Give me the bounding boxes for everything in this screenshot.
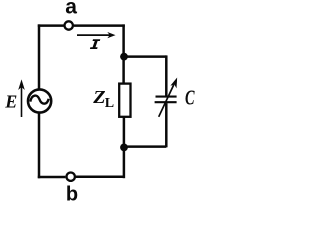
- svg-text:E: E: [4, 91, 17, 111]
- wire capacitor branch right vertical lower: [165, 103, 168, 147]
- wire bottom (left corner to node b): [38, 176, 66, 179]
- capacitor C: bottom plate: [155, 101, 177, 103]
- junction top (node between ZL and C branch): [120, 53, 128, 61]
- wire left vertical (source to bottom corner): [38, 113, 41, 179]
- label C: [185, 86, 195, 109]
- label Z: [92, 88, 106, 108]
- svg-text:b: b: [66, 184, 78, 202]
- svg-text:L: L: [105, 96, 114, 111]
- wire right vertical (top corner to ZL box): [122, 24, 125, 83]
- wire capacitor branch bottom horizontal: [124, 145, 166, 148]
- wire left vertical (top corner to source): [38, 24, 41, 89]
- wire top (node a to right corner): [74, 24, 125, 27]
- svg-text:a: a: [65, 0, 77, 19]
- AC source E: sine wave: [30, 96, 48, 104]
- wire capacitor branch top horizontal: [124, 55, 166, 58]
- node a (terminal circle): [65, 21, 73, 29]
- label I: [90, 39, 100, 49]
- current arrow I (top, pointing right): [77, 33, 115, 38]
- wire bottom (node b to right corner): [76, 176, 124, 179]
- load ZL box: [119, 84, 130, 117]
- capacitor C: top plate: [156, 96, 177, 98]
- capacitor variable arrow (diagonal): [159, 78, 177, 116]
- AC source E: circle: [28, 89, 51, 112]
- EMF arrow (upward, left of source): [19, 80, 24, 117]
- svg-text:C: C: [185, 86, 195, 109]
- wire right vertical (ZL box to bottom corner): [123, 117, 126, 178]
- wire top-left horizontal (corner to node a): [38, 24, 64, 27]
- node b (terminal circle): [67, 173, 75, 181]
- junction bottom: [120, 144, 128, 152]
- wire capacitor branch right vertical upper: [165, 55, 168, 95]
